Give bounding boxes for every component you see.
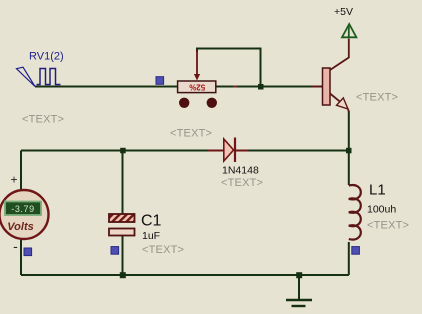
svg-text:<TEXT>: <TEXT> <box>142 244 184 256</box>
svg-text:<TEXT>: <TEXT> <box>22 114 64 126</box>
svg-text:-: - <box>13 238 18 254</box>
svg-text:52%: 52% <box>189 82 205 91</box>
svg-text:RV1(2): RV1(2) <box>29 51 64 63</box>
svg-text:1N4148: 1N4148 <box>222 165 259 177</box>
svg-text:Volts: Volts <box>7 221 34 233</box>
svg-text:<TEXT>: <TEXT> <box>221 177 263 189</box>
svg-text:C1: C1 <box>141 213 162 230</box>
svg-text:<TEXT>: <TEXT> <box>367 220 409 232</box>
svg-text:<TEXT>: <TEXT> <box>356 92 398 104</box>
svg-text:<TEXT>: <TEXT> <box>170 128 212 140</box>
svg-text:-3.79: -3.79 <box>11 204 35 214</box>
svg-text:L1: L1 <box>369 182 386 199</box>
svg-text:1uF: 1uF <box>142 230 160 242</box>
svg-text:+5V: +5V <box>334 6 353 18</box>
svg-text:+: + <box>10 173 17 187</box>
svg-text:100uh: 100uh <box>367 204 396 216</box>
